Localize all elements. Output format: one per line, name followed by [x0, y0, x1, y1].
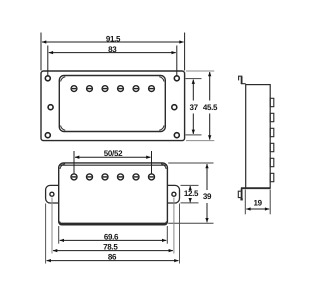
dim 39 line lower: [206, 203, 208, 222]
dim 83 line: [49, 52, 176, 54]
dim 50/52 line: [75, 156, 151, 158]
svg-text:39: 39: [203, 192, 212, 201]
pickup body outline (side view): [246, 85, 271, 189]
pole screw end bump B2 (side view): [270, 113, 274, 121]
svg-text:37: 37: [189, 103, 198, 112]
pole screw Q6 (front view): [149, 174, 155, 180]
ring screw hole bottom-left: [45, 133, 50, 138]
dim 45.5 extension lines: [186, 71, 214, 141]
pole screw P1 (top view): [71, 86, 77, 92]
dim 45.5 line lower: [209, 114, 211, 140]
svg-text:78.5: 78.5: [103, 242, 118, 251]
dim 69.6 line: [60, 239, 167, 241]
pole screw P2 (top view): [87, 86, 93, 92]
side view bottom edge thickening: [241, 187, 270, 189]
top mounting leg (side view): [239, 76, 246, 84]
mounting ring outline (top view): [41, 71, 185, 141]
pickup body outline (front view): [59, 163, 168, 225]
pole screw end bump B6 (side view): [270, 173, 274, 181]
dim 37 line lower: [192, 114, 194, 134]
svg-text:19: 19: [253, 199, 262, 208]
pickup body bottom edge thickening: [59, 223, 166, 225]
pole screw end bump B5 (side view): [270, 158, 274, 166]
dim 37 extension lines: [186, 79, 202, 135]
dim 50/52 extension lines: [74, 151, 152, 174]
pole screw end bump B4 (side view): [270, 143, 274, 151]
pole screw Q1 (front view): [71, 174, 77, 180]
pole screw end bump B3 (side view): [270, 128, 274, 136]
pickup body inner top edge line: [59, 164, 166, 166]
svg-text:12.5: 12.5: [184, 189, 199, 198]
pole screw P6 (top view): [149, 86, 155, 92]
dim 12.5 line upper: [189, 186, 191, 190]
pole screw Q3 (front view): [102, 174, 108, 180]
svg-text:45.5: 45.5: [203, 103, 218, 112]
svg-text:86: 86: [108, 252, 117, 261]
svg-text:69.6: 69.6: [104, 232, 119, 241]
pickup bobbin outline (top view): [59, 76, 165, 132]
dim 19 extension lines: [245, 190, 270, 215]
dim 86 line: [47, 260, 179, 262]
right ear screw hole: [172, 192, 176, 196]
svg-text:50/52: 50/52: [104, 149, 123, 158]
pole screw P4 (top view): [118, 86, 124, 92]
bottom mounting leg (side view): [238, 189, 242, 201]
bobbin corner highlight marks: [61, 77, 164, 130]
pole screw P5 (top view): [133, 86, 139, 92]
dim 39 extension lines: [168, 163, 213, 223]
dim 78.5 line: [53, 250, 173, 252]
ring screw hole bottom-right: [174, 133, 179, 138]
ring screw hole mid-left: [48, 105, 53, 110]
pole screw Q2 (front view): [87, 174, 93, 180]
left ear screw hole: [50, 192, 54, 196]
pole screw Q4 (front view): [118, 174, 124, 180]
dim 45.5 line upper: [209, 72, 211, 101]
ring screw hole mid-right: [172, 105, 177, 110]
pole screw end bump B1 (side view): [270, 98, 274, 106]
dim 19 line: [246, 208, 269, 210]
dim 83 extension lines: [48, 46, 177, 77]
dim 37 line upper: [192, 80, 194, 101]
dim 39 line upper: [206, 164, 208, 190]
dim 91.5 extension lines: [41, 33, 185, 71]
dim 86 extension lines: [46, 204, 180, 264]
dim 12.5 line lower: [189, 199, 191, 203]
dim 78.5 extension lines: [52, 198, 174, 254]
ring screw hole top-left: [45, 76, 50, 81]
dim 91.5 line: [42, 41, 184, 43]
pickup body corner highlight marks: [60, 164, 167, 224]
right mounting ear (front view): [167, 185, 179, 203]
left mounting ear (front view): [46, 185, 59, 203]
pole screw Q5 (front view): [133, 174, 139, 180]
svg-text:83: 83: [108, 45, 117, 54]
pole screw P3 (top view): [102, 86, 108, 92]
dim 69.6 extension lines: [59, 226, 168, 244]
dim 12.5 extension lines: [181, 185, 199, 203]
ring screw hole top-right: [174, 76, 179, 81]
svg-text:91.5: 91.5: [106, 34, 121, 43]
